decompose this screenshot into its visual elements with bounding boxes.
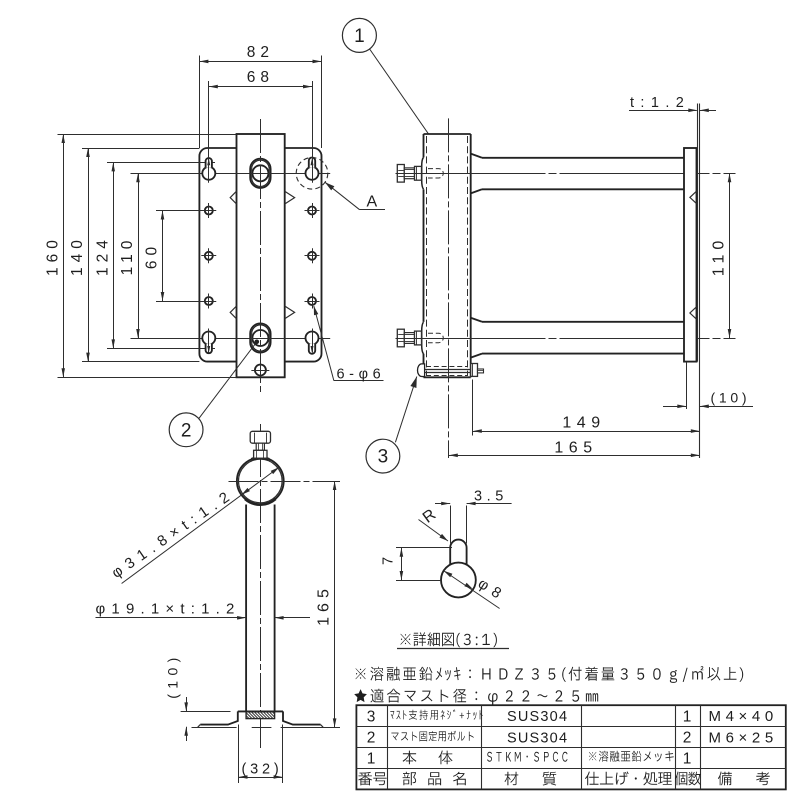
side pipe hidden wall left bbox=[426, 136, 428, 376]
table qty 1b bbox=[683, 751, 692, 768]
front/support vertical center line bbox=[260, 119, 262, 748]
table header kosuu bbox=[675, 772, 701, 786]
note mast diameter bbox=[354, 689, 598, 705]
dimension 68 bbox=[209, 69, 312, 88]
bend mark chevron left bbox=[230, 191, 236, 204]
svg-text:1: 1 bbox=[683, 709, 692, 726]
dimension 3.5 detail bbox=[435, 488, 512, 543]
table mat SUS304 b bbox=[507, 730, 568, 746]
mast center line bbox=[448, 118, 450, 458]
central slot hole with bolt bottom bbox=[247, 323, 273, 352]
mast fixing bolt M6 upper bbox=[397, 165, 443, 183]
support bolt head bbox=[250, 431, 270, 443]
svg-text:t:1.2: t:1.2 bbox=[630, 95, 690, 111]
ring horizontal center line bbox=[229, 481, 341, 483]
table header bango bbox=[358, 772, 386, 786]
keyhole slot-top extension line (124 dim) bbox=[107, 162, 215, 164]
svg-text:140: 140 bbox=[69, 235, 86, 276]
plate edge-on bar bbox=[684, 148, 697, 362]
keyhole slot-bottom extension line (124 dim) bbox=[107, 348, 215, 350]
svg-text:2: 2 bbox=[367, 730, 376, 747]
82 dim extension right bbox=[321, 56, 323, 149]
table name row3 bbox=[390, 709, 483, 719]
svg-text:(10): (10) bbox=[165, 652, 181, 699]
dimension 60 bbox=[144, 211, 165, 302]
note hot-dip galvanized bbox=[356, 666, 744, 683]
svg-text:(32): (32) bbox=[242, 762, 283, 778]
front view mast pipe (vertical strip) bbox=[237, 134, 285, 377]
dimension 149 bbox=[473, 415, 700, 433]
row 1 center line bbox=[131, 173, 331, 175]
support pipe left edge bbox=[245, 505, 247, 712]
dimension 124 bbox=[94, 162, 115, 348]
support screw thread end bbox=[478, 369, 484, 373]
table header hinmei bbox=[403, 772, 466, 786]
svg-text:φ19.1×t:1.2: φ19.1×t:1.2 bbox=[96, 601, 241, 618]
bend mark chevron left bbox=[230, 306, 236, 319]
dimension 160 bbox=[44, 134, 65, 377]
table remark M4x40 bbox=[709, 708, 778, 725]
lower arm tube bbox=[471, 318, 684, 358]
dimension 110 side bbox=[711, 173, 732, 338]
svg-text:2: 2 bbox=[683, 730, 692, 747]
dimension (32) bbox=[239, 725, 283, 784]
balloon 3 bbox=[366, 377, 417, 474]
detail keyhole bbox=[441, 540, 476, 598]
label 6-phi6 bbox=[314, 306, 385, 383]
table qty 1a bbox=[683, 709, 692, 726]
support base bbox=[198, 711, 323, 727]
balloon 1 bbox=[342, 18, 440, 150]
160 dim extension top bbox=[58, 134, 237, 136]
wall emboss at bolt bbox=[422, 157, 424, 189]
dimension (10) side bbox=[663, 390, 753, 409]
68 dim extension left bbox=[208, 81, 210, 167]
small hole phi6 right row2 bbox=[305, 203, 320, 218]
svg-text:M6×25: M6×25 bbox=[709, 729, 778, 746]
wall emboss at bolt bbox=[422, 322, 424, 354]
lower arm center line bbox=[396, 338, 736, 340]
82 dim extension left bbox=[199, 56, 201, 149]
table no.2 bbox=[367, 730, 376, 747]
160 dim extension bottom bbox=[58, 377, 237, 379]
side pipe hidden wall right bbox=[467, 136, 469, 376]
140 dim extension top bbox=[82, 148, 199, 150]
plate sheet line 2 bbox=[699, 104, 701, 459]
row 5 center line bbox=[131, 338, 331, 340]
support screw nut bbox=[471, 364, 478, 377]
149 extension line bbox=[472, 380, 474, 436]
dimension 165 side bbox=[449, 440, 700, 458]
svg-text:1: 1 bbox=[367, 751, 376, 768]
table qty 2 bbox=[683, 730, 692, 747]
dimension 140 bbox=[69, 148, 90, 362]
small hole phi6 right row3 bbox=[305, 248, 320, 263]
table header zaishitsu bbox=[505, 772, 557, 786]
keyhole slot bottom-right bbox=[306, 329, 319, 354]
svg-text:1: 1 bbox=[683, 751, 692, 768]
support screw M4 head bbox=[417, 364, 424, 377]
support ring outer bbox=[237, 458, 284, 505]
ring top seat bbox=[251, 458, 270, 462]
keyhole slot bottom-left bbox=[202, 329, 215, 354]
svg-text:SUS304: SUS304 bbox=[507, 709, 568, 725]
support ring inner bbox=[238, 459, 282, 503]
small hole phi6 left row3 bbox=[201, 248, 216, 263]
table mat STKM bbox=[487, 752, 567, 762]
svg-text:3: 3 bbox=[378, 447, 389, 468]
parts table grid bbox=[356, 705, 785, 789]
68 dim extension right bbox=[312, 81, 314, 167]
upper arm tube bbox=[471, 154, 684, 194]
plate sheet line 1 bbox=[697, 104, 699, 362]
svg-text:3.5: 3.5 bbox=[474, 488, 508, 504]
svg-text:82: 82 bbox=[247, 44, 274, 61]
svg-text:149: 149 bbox=[562, 415, 605, 432]
dimension 82 bbox=[199, 44, 321, 63]
leader arrow A bbox=[325, 182, 385, 210]
small hole phi6 right row4 bbox=[305, 294, 320, 309]
small hole below pipe bbox=[251, 361, 269, 379]
dimension t:1.2 bbox=[629, 95, 716, 112]
keyhole slot top-left bbox=[202, 158, 215, 183]
plate flange ext line bbox=[686, 362, 688, 409]
plate bend chevron bbox=[690, 191, 697, 203]
table name row1 bbox=[403, 750, 453, 764]
keyhole slot top-right bbox=[306, 157, 319, 182]
table no.3 bbox=[367, 709, 376, 726]
support pipe right edge bbox=[274, 505, 276, 712]
table header shiage bbox=[585, 772, 672, 786]
svg-text:160: 160 bbox=[44, 235, 61, 276]
small hole phi6 left row4 bbox=[201, 294, 216, 309]
table remark M6x25 bbox=[709, 729, 778, 746]
svg-text:110: 110 bbox=[119, 236, 136, 276]
svg-text:7: 7 bbox=[381, 557, 397, 565]
support bolt nut bbox=[254, 450, 267, 458]
pipe section hatch bbox=[246, 712, 275, 719]
svg-text:110: 110 bbox=[711, 236, 728, 277]
dimension (10) support bbox=[165, 652, 231, 741]
base bottom line bbox=[192, 727, 341, 729]
table finish galv bbox=[589, 751, 674, 762]
svg-text:A: A bbox=[367, 194, 378, 211]
svg-text:6-φ6: 6-φ6 bbox=[337, 367, 386, 383]
svg-text:60: 60 bbox=[144, 242, 161, 269]
detail circle A (dashed) bbox=[296, 158, 328, 190]
dimension 110 bbox=[119, 173, 140, 338]
table no.1 bbox=[367, 751, 376, 768]
table mat SUS304 a bbox=[507, 709, 568, 725]
svg-text:2: 2 bbox=[181, 420, 192, 441]
svg-text:124: 124 bbox=[94, 235, 111, 276]
dimension phi19.1 bbox=[96, 601, 311, 620]
support bolt shaft bbox=[256, 443, 264, 450]
svg-text:165: 165 bbox=[316, 584, 333, 626]
central slot hole with bolt top bbox=[247, 159, 273, 188]
svg-text:68: 68 bbox=[247, 69, 274, 86]
caption detail-zu bbox=[397, 632, 509, 648]
140 dim extension bottom bbox=[82, 361, 199, 363]
mast fixing bolt M6 lower bbox=[397, 329, 443, 347]
svg-text:3: 3 bbox=[367, 709, 376, 726]
balloon 2 bbox=[169, 340, 259, 447]
upper arm center line bbox=[396, 173, 736, 175]
support screw hidden hole bbox=[426, 367, 468, 376]
small hole phi6 left row2 bbox=[201, 203, 216, 218]
plate bend chevron bbox=[690, 307, 697, 319]
R leader detail bbox=[419, 506, 449, 541]
dimension 165 support bbox=[316, 481, 337, 727]
bend mark chevron right bbox=[285, 191, 295, 204]
phi8 leader detail bbox=[444, 571, 510, 609]
svg-text:165: 165 bbox=[554, 440, 597, 457]
row 2 extension line (60 dim) bbox=[156, 210, 216, 212]
svg-text:M4×40: M4×40 bbox=[709, 708, 778, 725]
svg-text:SUS304: SUS304 bbox=[507, 730, 568, 746]
svg-text:(10): (10) bbox=[711, 390, 751, 406]
table header biko bbox=[718, 772, 770, 786]
support screw shaft bbox=[425, 370, 471, 373]
row 4 extension line (60 dim) bbox=[156, 301, 216, 303]
svg-text:1: 1 bbox=[354, 26, 365, 47]
side view pipe outline bbox=[424, 134, 471, 377]
leader phi31.8 bbox=[109, 467, 280, 583]
dimension 7 detail bbox=[381, 548, 453, 581]
bend mark chevron right bbox=[285, 306, 295, 319]
front view plate outline bbox=[199, 148, 321, 362]
60 dim ext stub top bbox=[156, 210, 204, 212]
table name row2 bbox=[391, 731, 473, 742]
ring bottom seat bbox=[245, 499, 276, 505]
